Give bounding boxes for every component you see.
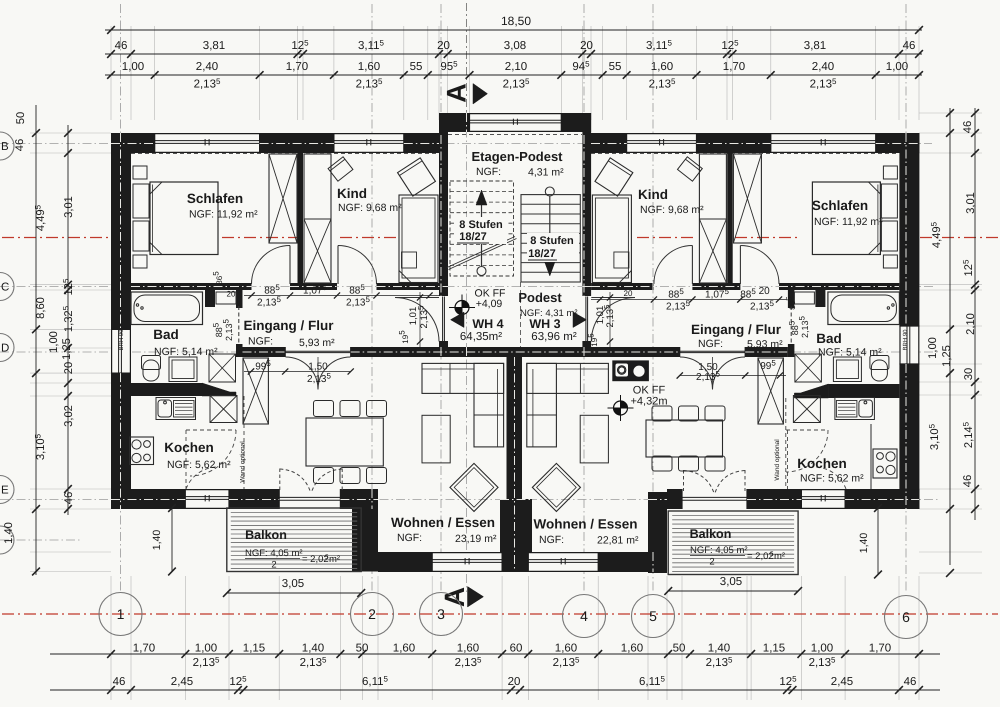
toilet right: [870, 356, 889, 370]
door Bad left (dashed): [238, 306, 240, 345]
wardrobe right Kind: [699, 154, 726, 283]
svg-text:1,15: 1,15: [243, 643, 265, 655]
svg-text:3,02: 3,02: [63, 405, 75, 427]
svg-text:1,60: 1,60: [358, 61, 380, 73]
svg-text:NGF:: NGF:: [539, 534, 564, 546]
level mark right Wohnen: [614, 401, 628, 415]
svg-text:1,00: 1,00: [811, 643, 833, 655]
door Schlafen right: [739, 246, 741, 285]
bed left Kind: [399, 195, 438, 283]
svg-text:6: 6: [902, 609, 910, 625]
balcony left dims: [227, 592, 361, 594]
stair flight down (solid): [521, 195, 580, 282]
svg-text:Balkon: Balkon: [245, 528, 287, 542]
window stairwell (2,10): [470, 113, 562, 132]
svg-text:Schlafen: Schlafen: [187, 191, 243, 206]
balcony left slab: [227, 508, 361, 572]
desk left Kind: [398, 158, 436, 196]
sofa right Wohnen: [527, 363, 609, 393]
svg-text:1,70: 1,70: [133, 643, 155, 655]
window Schlafen right (2,40): [771, 133, 876, 153]
svg-text:3,08: 3,08: [504, 40, 526, 52]
counter edge right: [870, 424, 872, 489]
svg-text:1,00: 1,00: [195, 643, 217, 655]
svg-text:NGF:: NGF:: [476, 166, 501, 178]
svg-text:D: D: [1, 343, 9, 355]
svg-text:50: 50: [673, 643, 686, 655]
svg-text:1,60: 1,60: [457, 643, 479, 655]
svg-text:Eingang / Flur: Eingang / Flur: [691, 322, 782, 337]
svg-text:Bad: Bad: [153, 327, 179, 342]
washbasin right: [833, 357, 861, 382]
svg-text:20: 20: [437, 40, 450, 52]
grid bubbles left edge: [0, 132, 14, 160]
entry door opening WH4: [439, 297, 448, 342]
svg-text:3: 3: [437, 606, 445, 622]
svg-text:2,40: 2,40: [196, 61, 218, 73]
svg-text:1,25: 1,25: [941, 345, 953, 367]
svg-text:20: 20: [63, 362, 75, 374]
svg-text:8 Stufen: 8 Stufen: [530, 235, 574, 247]
level mark Podest: [455, 301, 469, 315]
svg-text:BRH 90: BRH 90: [118, 329, 125, 351]
svg-text:WH 3: WH 3: [529, 317, 560, 331]
window Wohnen left (1,60): [432, 552, 502, 572]
svg-text:Wohnen / Essen: Wohnen / Essen: [391, 515, 495, 530]
Wand optional line left: [243, 396, 245, 489]
svg-text:1,15: 1,15: [763, 643, 785, 655]
svg-text:20: 20: [508, 676, 521, 688]
optional door Kochen left (dashed): [185, 430, 187, 489]
wardrobe right Schlafen: [733, 154, 761, 243]
svg-text:46: 46: [962, 475, 974, 487]
door Kind right: [691, 246, 693, 285]
dashed sill lines: [131, 153, 439, 155]
fridge right (crossed): [793, 396, 820, 423]
stair down arrow: [545, 187, 554, 196]
svg-text:1,00: 1,00: [927, 337, 939, 359]
svg-text:NGF: 5,62 m²: NGF: 5,62 m²: [167, 459, 231, 471]
side table right (rotated): [532, 463, 580, 511]
svg-text:NGF: 9,68 m²: NGF: 9,68 m²: [640, 204, 704, 216]
dim 1,50 left: [244, 371, 351, 373]
entry door opening WH3: [582, 297, 591, 342]
balcony door left (dashed): [279, 469, 281, 491]
svg-text:m²: m²: [774, 551, 785, 562]
bathtub left: [131, 292, 203, 325]
svg-text:WH 4: WH 4: [472, 317, 503, 331]
svg-text:Schlafen: Schlafen: [812, 198, 868, 213]
svg-text:55: 55: [609, 61, 622, 73]
dim chain (bottom row 1): [50, 653, 940, 655]
svg-text:Bad: Bad: [816, 331, 842, 346]
svg-text:1,00: 1,00: [886, 61, 908, 73]
window Bad left: [111, 329, 131, 373]
svg-text:C: C: [1, 282, 9, 294]
svg-text:5: 5: [649, 608, 657, 624]
svg-text:Kind: Kind: [638, 187, 668, 202]
svg-text:1,40: 1,40: [151, 530, 163, 551]
svg-text:64,35m²: 64,35m²: [460, 331, 502, 343]
dim chain windows (top): [105, 74, 922, 76]
svg-text:5,93 m²: 5,93 m²: [299, 337, 335, 349]
bed right Kind: [592, 195, 631, 283]
wardrobe left Kind: [304, 154, 331, 283]
wardrobe left Schlafen: [269, 154, 297, 243]
svg-text:2: 2: [368, 606, 376, 622]
window Kind left (1,60): [334, 133, 404, 153]
svg-text:1,60: 1,60: [651, 61, 673, 73]
double bed right Schlafen: [812, 182, 880, 255]
svg-text:Wand optional: Wand optional: [240, 441, 247, 483]
kitchen sink right: [835, 398, 875, 420]
dining table left: [306, 418, 383, 466]
svg-text:2,10: 2,10: [505, 61, 527, 73]
door Schlafen left: [289, 246, 291, 285]
entry door WH3: [591, 297, 635, 299]
toilet left: [142, 356, 161, 370]
bathtub right: [828, 292, 900, 325]
svg-text:+4,09: +4,09: [476, 298, 503, 310]
svg-text:55: 55: [410, 61, 423, 73]
svg-text:22,81 m²: 22,81 m²: [597, 535, 639, 547]
construction grid lines: [120, 4, 122, 592]
balcony door right (dashed): [683, 470, 685, 491]
svg-text:Podest: Podest: [518, 290, 562, 305]
svg-text:5: 5: [325, 554, 329, 561]
kitchen sink left: [156, 398, 196, 420]
svg-text:Kochen: Kochen: [797, 456, 847, 471]
svg-text:+4,32m: +4,32m: [631, 396, 668, 408]
bed nightstands right Schlafen: [883, 166, 897, 179]
dim 1,50 right: [680, 375, 786, 377]
double door left Wohnen: [286, 357, 319, 390]
stair labels: [456, 217, 507, 244]
opening 1,50 left: [285, 347, 351, 357]
svg-text:1,60: 1,60: [393, 643, 415, 655]
svg-text:46: 46: [962, 121, 974, 133]
svg-text:20: 20: [580, 40, 593, 52]
svg-text:5: 5: [770, 551, 774, 558]
svg-text:1,50: 1,50: [308, 362, 328, 373]
svg-text:20: 20: [624, 289, 633, 298]
desk right Kind: [595, 158, 633, 196]
svg-text:1,40: 1,40: [302, 643, 324, 655]
balcony door opening left (1,40): [279, 489, 340, 509]
svg-text:2,10: 2,10: [965, 313, 977, 335]
right margin dims: [949, 108, 951, 565]
svg-text:Wand optional: Wand optional: [774, 439, 781, 481]
svg-text:Balkon: Balkon: [690, 527, 732, 541]
door Bad right (dashed): [790, 306, 792, 345]
stair flight up (dashed): [450, 181, 514, 276]
svg-text:BRH 90: BRH 90: [902, 329, 909, 351]
optional door Kochen right (dashed): [787, 430, 789, 489]
washbasin left: [169, 357, 197, 382]
washing machine right: [795, 354, 822, 382]
svg-text:NGF: 4,05 m²: NGF: 4,05 m²: [245, 548, 303, 559]
svg-text:46: 46: [113, 676, 126, 688]
svg-text:NGF:: NGF:: [698, 338, 723, 350]
svg-text:46: 46: [904, 676, 917, 688]
entry door WH4: [395, 297, 439, 299]
svg-text:NGF: 11,92 m²: NGF: 11,92 m²: [814, 216, 883, 228]
dim total 18,50: [105, 29, 922, 31]
interior walls: [298, 153, 304, 284]
chair right Kind: [677, 157, 702, 181]
grid bubbles 1-6: [99, 593, 142, 636]
svg-text:NGF: 5,14 m²: NGF: 5,14 m²: [154, 346, 218, 358]
svg-text:Kind: Kind: [337, 186, 367, 201]
svg-text:1: 1: [117, 606, 125, 622]
svg-text:2: 2: [271, 560, 276, 571]
svg-text:Wohnen / Essen: Wohnen / Essen: [533, 517, 637, 532]
Wand optional line right: [785, 398, 787, 489]
svg-text:46: 46: [14, 139, 26, 151]
svg-text:1,60: 1,60: [555, 643, 577, 655]
svg-text:B: B: [1, 141, 9, 153]
window Kochen right (1,00): [801, 489, 845, 509]
svg-text:3,01: 3,01: [965, 192, 977, 214]
svg-text:NGF: 11,92 m²: NGF: 11,92 m²: [189, 209, 258, 221]
arrow WH4 (west): [451, 312, 465, 328]
svg-text:46: 46: [115, 40, 128, 52]
svg-text:NGF: 5,14 m²: NGF: 5,14 m²: [818, 347, 882, 359]
svg-text:23,19 m²: 23,19 m²: [455, 533, 497, 545]
svg-text:46: 46: [903, 40, 916, 52]
svg-text:NGF: 9,68 m²: NGF: 9,68 m²: [338, 202, 402, 214]
svg-text:1,25: 1,25: [61, 338, 73, 360]
chair left Kind: [328, 157, 353, 181]
svg-text:NGF: 5,62 m²: NGF: 5,62 m²: [800, 473, 864, 485]
svg-text:2: 2: [709, 557, 714, 568]
tall cabinet right Wohnen: [758, 358, 783, 424]
svg-text:2,40: 2,40: [812, 61, 834, 73]
window Bad right: [899, 326, 919, 364]
door dims corridor right: [591, 299, 786, 301]
svg-text:1,40: 1,40: [858, 533, 870, 554]
arrow WH3 (east): [573, 312, 587, 328]
extension lines: [110, 26, 112, 120]
svg-text:18,50: 18,50: [501, 14, 531, 28]
svg-text:Etagen-Podest: Etagen-Podest: [471, 149, 563, 164]
svg-text:1,00: 1,00: [122, 61, 144, 73]
tall cabinet left Wohnen: [243, 358, 268, 424]
window Schlafen left (2,40): [155, 133, 260, 153]
washing machine left: [209, 354, 236, 382]
svg-text:1,40: 1,40: [3, 522, 15, 544]
svg-text:3,81: 3,81: [804, 40, 826, 52]
shelf left Bad: [216, 292, 236, 304]
svg-text:2,45: 2,45: [831, 676, 853, 688]
dim chain (bottom row 2): [50, 689, 940, 691]
window Wohnen right (1,60): [528, 552, 598, 572]
svg-text:50: 50: [15, 112, 27, 124]
svg-text:1,70: 1,70: [723, 61, 745, 73]
red axis line (upper): [2, 237, 110, 239]
svg-text:1,60: 1,60: [621, 643, 643, 655]
svg-text:A: A: [442, 83, 472, 103]
balcony right slab: [668, 511, 798, 575]
svg-text:8,60: 8,60: [35, 297, 47, 319]
svg-text:NGF:: NGF:: [248, 336, 273, 348]
exterior walls: [111, 133, 155, 153]
opening 1,50 right: [680, 347, 746, 357]
podest dashed boundary: [520, 282, 522, 347]
svg-text:60: 60: [510, 643, 523, 655]
svg-text:Kochen: Kochen: [164, 440, 214, 455]
svg-text:18/27: 18/27: [459, 231, 487, 243]
svg-text:3,81: 3,81: [203, 40, 225, 52]
svg-text:1,70: 1,70: [869, 643, 891, 655]
shelf right Bad: [794, 292, 814, 304]
coffee table left: [422, 415, 450, 463]
svg-text:30: 30: [963, 368, 975, 380]
window Kind right (1,60): [627, 133, 697, 153]
fridge left (crossed): [210, 396, 237, 423]
stair break line: [447, 237, 515, 268]
left margin dims: [35, 105, 37, 575]
window Kochen left (1,00): [185, 489, 229, 509]
svg-text:20: 20: [227, 290, 236, 299]
svg-text:3,01: 3,01: [63, 196, 75, 218]
side table left (rotated): [450, 463, 498, 511]
svg-text:2,45: 2,45: [171, 676, 193, 688]
svg-text:3,05: 3,05: [282, 578, 304, 590]
svg-text:Eingang / Flur: Eingang / Flur: [244, 318, 335, 333]
svg-text:18/27: 18/27: [528, 248, 556, 260]
sofa left Wohnen: [422, 363, 504, 393]
svg-text:NGF: 4,05 m²: NGF: 4,05 m²: [690, 545, 748, 556]
svg-text:4,31 m²: 4,31 m²: [528, 167, 564, 179]
stair up arrow: [477, 267, 486, 276]
svg-text:63,96 m²: 63,96 m²: [531, 331, 577, 343]
svg-text:46: 46: [63, 492, 75, 504]
svg-text:3,05: 3,05: [720, 576, 742, 588]
door Kind left: [337, 246, 339, 285]
svg-text:1,70: 1,70: [286, 61, 308, 73]
svg-text:E: E: [1, 485, 9, 497]
balcony door opening right: [682, 489, 747, 509]
svg-text:8 Stufen: 8 Stufen: [459, 219, 503, 231]
red axis line through grid bubbles: [2, 613, 998, 615]
stove left: [130, 437, 154, 465]
bed nightstands left Schlafen: [133, 166, 147, 179]
svg-text:m²: m²: [329, 554, 340, 565]
stove right: [873, 449, 897, 478]
double door right Wohnen: [680, 357, 713, 390]
svg-text:1,40: 1,40: [708, 643, 730, 655]
svg-text:1,00: 1,00: [48, 331, 60, 353]
balcony right dims: [668, 590, 798, 592]
svg-text:50: 50: [356, 643, 369, 655]
svg-text:4: 4: [580, 608, 588, 624]
door dims corridor left: [244, 295, 439, 297]
svg-text:NGF:: NGF:: [397, 532, 422, 544]
axis overlays on walls: [111, 143, 155, 145]
dim chain rooms (top): [105, 53, 922, 55]
double bed left Schlafen: [150, 182, 218, 255]
cooktop unit right Wohnen: [612, 360, 649, 381]
coffee table right: [580, 415, 608, 463]
svg-text:5,93 m²: 5,93 m²: [747, 339, 783, 351]
dining table right: [646, 420, 723, 457]
